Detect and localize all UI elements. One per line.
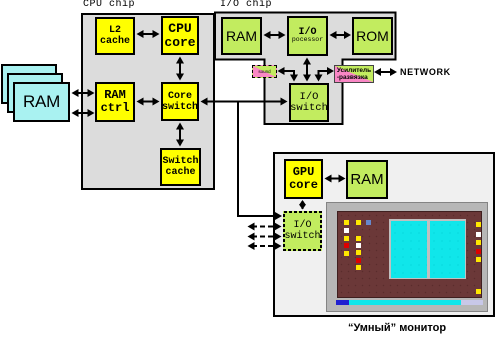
- dashed arrow GPU I/O switch 1: [248, 223, 282, 231]
- RAM stack middle: [7, 73, 63, 113]
- arrow Core switch to Switch cache: [176, 123, 184, 147]
- icon square r-5 yellow: [476, 257, 481, 262]
- icon square r-1 yellow: [476, 222, 481, 227]
- screen book right page: [430, 221, 465, 279]
- RAM stack front: [13, 82, 70, 122]
- arrow RAM stack to RAM ctrl upper: [72, 89, 95, 97]
- arrow amplifier to NETWORK: [374, 68, 397, 76]
- GPU monitor outer box: [273, 152, 495, 317]
- taskbar cyan segment: [349, 300, 461, 305]
- box Core switch: [161, 82, 199, 121]
- box RAM ctrl: [95, 82, 135, 122]
- RAM stack back: [1, 64, 57, 104]
- icon square r-4 red: [476, 249, 481, 254]
- icon square c2-6 yellow: [356, 265, 361, 270]
- icon square c2-5 red: [356, 258, 361, 263]
- icon square c1-3 yellow: [344, 236, 349, 241]
- box sound (dashed): [252, 65, 277, 78]
- dashed arrow GPU I/O switch 2: [248, 233, 282, 241]
- icon square c2-3 white: [356, 243, 361, 248]
- taskbar blue segment: [336, 300, 349, 305]
- arrow elbow sound to I/O switch: [278, 67, 299, 82]
- screen book frame: [389, 219, 466, 279]
- arrow elbow I/O switch to amplifier: [315, 67, 335, 82]
- screen book left page: [391, 221, 427, 279]
- icon square blue: [366, 220, 371, 225]
- arrow GPU core to GPU RAM: [325, 175, 346, 183]
- icon square c1-5 yellow: [344, 251, 349, 256]
- icon square c2-4 yellow: [356, 250, 361, 255]
- icon square c2-1 yellow: [356, 220, 361, 225]
- icon square c1-1 yellow: [344, 220, 349, 225]
- icon square c1-4 red: [344, 243, 349, 248]
- arrow I/O pocessor to ROM: [330, 31, 352, 39]
- label CPU chip: [83, 0, 135, 10]
- arrow I/O pocessor to I/O switch: [303, 58, 311, 82]
- box Switch cache: [160, 148, 201, 186]
- wire branch down to GPU I/O switch: [238, 103, 282, 221]
- box GPU core: [284, 159, 323, 199]
- box GPU I/O switch (dashed): [283, 211, 322, 251]
- arrow CPU core to Core switch: [176, 57, 184, 81]
- icon square r-3 yellow: [476, 240, 481, 245]
- dashed arrow GPU I/O switch 3: [248, 242, 282, 250]
- monitor screen: [337, 211, 482, 298]
- taskbar lavender segment: [461, 300, 483, 305]
- box GPU RAM: [346, 160, 388, 199]
- arrow I/O RAM to I/O pocessor: [264, 31, 286, 39]
- label I/O chip: [220, 0, 272, 10]
- label NETWORK: [400, 67, 451, 77]
- CPU chip outline: [81, 13, 215, 190]
- icon square c1-2 white: [344, 228, 349, 233]
- wire Core switch to I/O switch: [201, 98, 288, 106]
- box I/O switch (I/O chip): [289, 83, 329, 122]
- arrow RAM ctrl to Core switch: [137, 98, 160, 106]
- box I/O pocessor: [287, 16, 328, 56]
- dashed border GPU I/O switch: [284, 212, 321, 250]
- box I/O RAM: [221, 17, 262, 55]
- arrow L2 cache to CPU core: [137, 30, 160, 38]
- arrow RAM stack to RAM ctrl lower: [72, 109, 95, 117]
- arrow GPU core to GPU I/O switch: [299, 200, 306, 210]
- label smart monitor: [286, 322, 500, 334]
- box ROM: [352, 17, 393, 55]
- icon square c2-2 yellow: [356, 236, 361, 241]
- box amplifier Усилитель-развязка: [334, 65, 374, 83]
- box CPU core: [161, 16, 199, 55]
- monitor frame: [326, 202, 488, 312]
- icon square bottom right: [476, 289, 481, 294]
- box L2 cache: [95, 17, 135, 55]
- icon square r-2 white: [476, 232, 481, 237]
